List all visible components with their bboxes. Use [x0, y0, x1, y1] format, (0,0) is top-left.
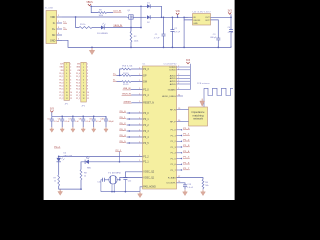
capacitor C6	[58, 116, 70, 127]
wire U2 OUT to 3V3	[211, 16, 232, 18]
svg-text:P0_1: P0_1	[59, 76, 63, 78]
svg-text:1: 1	[66, 64, 67, 66]
resistor R8 1k	[80, 170, 87, 190]
svg-text:4.7 uF: 4.7 uF	[228, 32, 234, 34]
svg-text:2: 2	[178, 68, 179, 70]
svg-text:2: 2	[178, 66, 179, 68]
capacitor C12	[123, 178, 131, 192]
svg-text:AVDD: AVDD	[170, 83, 176, 86]
net USB_IN	[123, 88, 143, 90]
svg-text:3: 3	[66, 70, 67, 72]
svg-text:P1_3: P1_3	[171, 147, 177, 149]
svg-text:1k: 1k	[84, 175, 86, 177]
svg-text:2: 2	[58, 21, 59, 23]
svg-text:P0_2: P0_2	[76, 79, 80, 81]
capacitor C5	[47, 116, 59, 127]
svg-text:P2_4: P2_4	[143, 95, 149, 97]
svg-text:GND: GND	[193, 23, 198, 25]
svg-text:29: 29	[178, 108, 180, 110]
svg-text:5: 5	[87, 76, 88, 78]
svg-text:C5: C5	[47, 119, 49, 121]
pin AVDD_DREG	[177, 94, 184, 96]
svg-text:DVDD: DVDD	[169, 70, 176, 72]
svg-text:7: 7	[87, 82, 88, 84]
ground (R6)	[202, 190, 204, 192]
connector JP2	[76, 62, 89, 107]
wire crystal ground	[101, 184, 140, 193]
svg-text:XOSC_Q1: XOSC_Q1	[143, 177, 155, 179]
net P0_3	[119, 129, 142, 132]
svg-text:P1_0: P1_0	[171, 130, 177, 132]
wire ground rail	[62, 40, 231, 48]
transistor Q1	[127, 10, 146, 27]
svg-text:2: 2	[178, 80, 179, 82]
svg-text:XOSC_Q2: XOSC_Q2	[143, 172, 155, 174]
net P0_1	[119, 117, 142, 120]
svg-text:ON/OFF: ON/OFF	[193, 20, 201, 22]
net P1_1	[177, 134, 191, 137]
svg-text:4: 4	[58, 33, 59, 35]
svg-text:impedance: impedance	[192, 112, 206, 114]
svg-text:CC2511F32: CC2511F32	[164, 64, 178, 66]
svg-text:C11: C11	[97, 182, 100, 184]
svg-text:6: 6	[87, 79, 88, 81]
supply 3V3 (regulator out)	[228, 11, 233, 18]
net P1_2	[177, 139, 191, 142]
svg-text:P0_2: P0_2	[59, 79, 63, 81]
svg-text:12: 12	[66, 98, 68, 100]
regulator U2 3.3V LDO	[183, 12, 211, 48]
svg-text:GND: GND	[50, 39, 56, 42]
wire RF_N	[177, 108, 189, 110]
svg-text:P1_7: P1_7	[171, 170, 177, 172]
svg-text:1k: 1k	[54, 180, 56, 182]
svg-text:P0_3: P0_3	[59, 82, 63, 84]
svg-text:560 pF: 560 pF	[108, 121, 113, 123]
capacitor C8	[79, 116, 91, 127]
svg-text:DP: DP	[143, 75, 147, 77]
svg-text:2: 2	[178, 74, 179, 76]
net nRESET	[123, 101, 142, 103]
svg-text:11: 11	[83, 95, 85, 97]
ground (PAD_AGND)	[139, 192, 141, 194]
svg-text:6: 6	[70, 79, 71, 81]
svg-text:5: 5	[66, 76, 67, 78]
net P1_7	[177, 168, 191, 171]
svg-text:0.1 uF: 0.1 uF	[54, 121, 59, 123]
svg-text:4: 4	[66, 73, 67, 75]
svg-text:AVDD: AVDD	[170, 80, 176, 83]
net P0_4	[119, 135, 142, 138]
ground (C9)	[93, 127, 95, 129]
svg-text:R_BIAS: R_BIAS	[168, 176, 176, 179]
svg-text:P2_3: P2_3	[143, 69, 149, 71]
svg-text:DCOUPL: DCOUPL	[167, 183, 177, 185]
svg-text:12: 12	[70, 98, 72, 100]
svg-text:D3 GREEN: D3 GREEN	[97, 33, 108, 35]
pin numbers U1 left	[139, 67, 140, 162]
wire 3V3 bus	[52, 115, 106, 118]
svg-text:8: 8	[70, 86, 71, 88]
svg-text:4.7 uF: 4.7 uF	[174, 31, 180, 33]
svg-text:C12: C12	[128, 180, 131, 182]
svg-text:2: 2	[70, 67, 71, 69]
svg-text:9: 9	[83, 89, 84, 91]
svg-text:0.1 uF: 0.1 uF	[65, 121, 70, 123]
svg-text:RED: RED	[87, 168, 92, 170]
ground (C13)	[184, 190, 186, 192]
svg-text:R4 1.5k: R4 1.5k	[122, 65, 133, 67]
net P1_6	[177, 162, 191, 165]
svg-text:P0_4: P0_4	[76, 86, 80, 88]
svg-text:5: 5	[70, 76, 71, 78]
svg-text:2: 2	[178, 83, 179, 85]
svg-text:matching: matching	[193, 114, 205, 117]
svg-text:RF_N: RF_N	[170, 109, 176, 111]
wire VBUS to D1	[90, 5, 147, 7]
svg-text:1 uF: 1 uF	[75, 121, 78, 123]
svg-text:BYP: BYP	[206, 20, 211, 22]
PCB antenna meander	[204, 88, 233, 95]
svg-text:2: 2	[178, 88, 179, 90]
svg-text:C10: C10	[101, 119, 104, 121]
svg-text:7: 7	[83, 82, 84, 84]
svg-text:C7: C7	[68, 119, 70, 121]
supply VIN	[176, 11, 180, 17]
svg-text:3V3: 3V3	[60, 64, 63, 66]
svg-text:P1_1: P1_1	[171, 135, 177, 137]
svg-text:12: 12	[87, 98, 89, 100]
svg-text:P1_2: P1_2	[59, 98, 63, 100]
diode D2	[147, 15, 188, 24]
crystal Y1 48MHz	[105, 172, 121, 184]
net P1_5	[177, 157, 191, 160]
svg-text:9: 9	[87, 89, 88, 91]
net P0_2	[119, 123, 142, 126]
ground (C10)	[105, 127, 107, 129]
supply 3V3 (IC)	[186, 60, 191, 67]
svg-text:network: network	[193, 118, 204, 121]
svg-text:5: 5	[58, 39, 59, 41]
svg-text:P0_5: P0_5	[143, 143, 149, 145]
svg-text:RF_P: RF_P	[170, 121, 176, 123]
connector X1 USB	[45, 7, 62, 43]
ground (C8)	[82, 127, 84, 129]
svg-text:P2_1: P2_1	[143, 162, 149, 164]
svg-text:DVDD: DVDD	[169, 67, 176, 69]
LED D5 red	[81, 156, 92, 169]
svg-text:1.0 uF: 1.0 uF	[187, 187, 193, 189]
svg-text:16: 16	[178, 181, 180, 183]
svg-text:2: 2	[178, 77, 179, 79]
svg-text:DM: DM	[143, 82, 147, 84]
svg-text:VDD: VDD	[50, 16, 55, 19]
net P1_4	[177, 151, 191, 154]
svg-text:P1_0: P1_0	[76, 92, 80, 94]
capacitor C2 4.7uF	[170, 17, 180, 47]
resistor R4 1.5k	[120, 65, 143, 75]
svg-text:C6: C6	[58, 119, 60, 121]
svg-text:OUT: OUT	[205, 17, 210, 19]
impedance matching network	[189, 107, 208, 126]
wire P2_1	[89, 152, 143, 163]
resistor R9 100k (VBUS to LDO_IN label)	[91, 6, 113, 17]
svg-text:P2_2: P2_2	[143, 156, 149, 158]
svg-text:2: 2	[66, 67, 67, 69]
svg-text:3: 3	[58, 27, 59, 29]
LED D3 green	[97, 23, 141, 35]
svg-text:P1_1: P1_1	[76, 95, 80, 97]
svg-text:4: 4	[87, 73, 88, 75]
svg-text:0.1 uF: 0.1 uF	[86, 121, 91, 123]
svg-text:P0_1: P0_1	[76, 76, 80, 78]
net VBUS_IN gate node	[130, 6, 142, 28]
svg-text:7: 7	[70, 82, 71, 84]
svg-text:1: 1	[83, 64, 84, 66]
svg-text:3V3: 3V3	[77, 64, 80, 66]
svg-text:VBUS: VBUS	[86, 2, 93, 4]
resistor R6 56k	[177, 176, 209, 190]
svg-text:P0_5: P0_5	[59, 89, 63, 91]
capacitor C1 4.7uF	[154, 17, 166, 47]
svg-text:YELLOW: YELLOW	[64, 156, 73, 158]
ground (LEDs)	[59, 190, 61, 192]
svg-text:17: 17	[178, 176, 180, 178]
svg-text:RESET_N: RESET_N	[143, 103, 154, 105]
svg-text:4: 4	[70, 73, 71, 75]
svg-text:11: 11	[87, 95, 89, 97]
svg-text:0.1 uF: 0.1 uF	[96, 121, 101, 123]
svg-text:P0_3: P0_3	[76, 82, 80, 84]
svg-text:P1_2: P1_2	[171, 141, 177, 143]
svg-text:2: 2	[83, 67, 84, 69]
svg-text:P0_0: P0_0	[143, 113, 149, 115]
svg-text:AVDD: AVDD	[170, 77, 176, 80]
svg-text:P0_0: P0_0	[59, 73, 63, 75]
resistor R2 100k (gate pulldown)	[130, 28, 139, 48]
capacitor C13 1.0uF	[177, 181, 194, 189]
svg-text:10: 10	[66, 92, 68, 94]
wire PAD_AGND	[140, 187, 143, 192]
svg-text:R1 1k: R1 1k	[80, 24, 86, 26]
svg-text:5: 5	[83, 76, 84, 78]
supply 3V3 (cap row)	[50, 109, 55, 117]
svg-text:9: 9	[70, 89, 71, 91]
svg-text:11: 11	[66, 95, 68, 97]
svg-text:3: 3	[83, 70, 84, 72]
svg-text:1: 1	[58, 15, 59, 17]
svg-text:P1_2: P1_2	[76, 98, 80, 100]
svg-text:P1_6: P1_6	[171, 164, 177, 166]
LED D4 yellow	[57, 153, 73, 175]
svg-text:7: 7	[66, 82, 67, 84]
net P1_0	[177, 128, 191, 131]
svg-text:PCB antenna: PCB antenna	[197, 82, 210, 85]
wire antenna feed	[203, 88, 205, 107]
wire XOSC_Q2	[125, 172, 142, 178]
net P0_0	[119, 111, 142, 114]
svg-text:56k: 56k	[205, 185, 208, 187]
resistor R3 33	[117, 73, 143, 76]
svg-text:P1_4: P1_4	[171, 153, 177, 155]
svg-text:4.7 uF: 4.7 uF	[154, 37, 160, 39]
svg-text:31: 31	[178, 94, 180, 96]
net P1_3	[177, 145, 191, 148]
wire VDD/USB 5V	[62, 16, 127, 18]
svg-text:10: 10	[70, 92, 72, 94]
svg-text:Y1 48 MHz: Y1 48 MHz	[108, 172, 121, 174]
svg-text:PAD_AGND: PAD_AGND	[143, 186, 156, 189]
svg-text:P0_3: P0_3	[143, 131, 149, 133]
capacitor C7	[68, 116, 78, 127]
svg-text:10: 10	[87, 92, 89, 94]
svg-text:12: 12	[83, 98, 85, 100]
op IC U1 CC2511F32	[143, 64, 178, 189]
resistor R7 1k	[53, 175, 81, 189]
svg-text:P0_5: P0_5	[76, 89, 80, 91]
antenna arrow	[200, 101, 205, 106]
svg-text:P1_5: P1_5	[171, 158, 177, 160]
svg-text:10: 10	[83, 92, 85, 94]
svg-text:9: 9	[66, 89, 67, 91]
diode D1	[147, 3, 162, 18]
svg-text:R5 33: R5 33	[123, 84, 129, 86]
svg-text:P0_0: P0_0	[76, 73, 80, 75]
svg-text:P1_0: P1_0	[59, 92, 63, 94]
capacitor C9	[89, 116, 101, 127]
supply VBUS	[86, 2, 93, 6]
capacitor C4 4.7uF	[228, 17, 234, 47]
svg-text:30: 30	[178, 120, 180, 122]
svg-text:11: 11	[70, 95, 72, 97]
svg-text:4: 4	[83, 73, 84, 75]
svg-text:3: 3	[87, 70, 88, 72]
svg-text:AVDD: AVDD	[170, 74, 176, 77]
svg-text:2: 2	[87, 67, 88, 69]
svg-text:P0_1: P0_1	[143, 119, 149, 121]
svg-text:8: 8	[83, 86, 84, 88]
resistor R1 1k	[76, 17, 101, 28]
svg-text:680 pF: 680 pF	[210, 37, 217, 39]
svg-text:8: 8	[87, 86, 88, 88]
wire P2_2	[58, 156, 143, 158]
svg-text:P2_0: P2_0	[143, 90, 149, 92]
svg-text:GUARD: GUARD	[168, 89, 176, 92]
net VBUS_IN	[122, 94, 143, 96]
svg-text:P0_4: P0_4	[59, 86, 63, 88]
svg-text:P0_2: P0_2	[143, 125, 149, 127]
svg-text:8: 8	[66, 86, 67, 88]
svg-text:6: 6	[66, 79, 67, 81]
net P0_5	[119, 141, 142, 144]
capacitor C3 680pF	[210, 20, 220, 48]
svg-text:P1_1: P1_1	[59, 95, 63, 97]
svg-text:6: 6	[83, 79, 84, 81]
svg-text:C8: C8	[79, 119, 81, 121]
connector JP1	[59, 62, 72, 105]
wire XOSC_Q1	[119, 177, 143, 180]
wire AVDD bus	[177, 66, 191, 91]
ground (C7)	[72, 127, 74, 129]
svg-text:D-: D-	[53, 22, 56, 25]
resistor R5 33	[117, 81, 143, 87]
svg-text:1: 1	[70, 64, 71, 66]
svg-text:1: 1	[87, 64, 88, 66]
capacitor C11	[97, 178, 104, 192]
ground (C6)	[61, 127, 63, 129]
svg-text:P0_4: P0_4	[143, 137, 149, 139]
ground (C5)	[51, 127, 53, 129]
svg-text:X1_USB: X1_USB	[45, 7, 54, 9]
wire RF_P	[177, 120, 189, 122]
svg-text:C9: C9	[89, 119, 91, 121]
svg-text:3: 3	[70, 70, 71, 72]
svg-text:AVDD_DREG: AVDD_DREG	[162, 95, 176, 98]
ground (rail)	[91, 48, 93, 51]
svg-text:NC: NC	[52, 34, 56, 37]
capacitor C10	[101, 116, 114, 127]
